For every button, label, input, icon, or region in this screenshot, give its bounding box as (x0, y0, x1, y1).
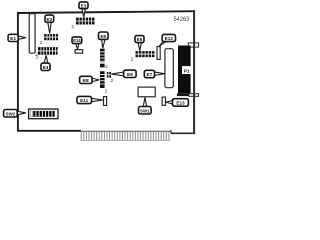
svg-text:E7: E7 (146, 72, 152, 78)
callout label E6 (135, 36, 144, 43)
callout label SW2 (4, 110, 18, 118)
header E8 (vertical 2-col) (100, 71, 105, 88)
callout tail E14 (76, 43, 79, 49)
jumper E11 component (104, 97, 107, 106)
connector P1 flange (177, 93, 189, 96)
edge connector end step (170, 130, 172, 134)
board bottom border right segment (171, 132, 195, 134)
svg-text:E6: E6 (137, 37, 143, 42)
callout tail E12 (159, 41, 166, 46)
callout label E9 (124, 70, 137, 77)
switch SW1 body (138, 87, 155, 97)
header E9 (2x2) (107, 72, 111, 78)
connector strip E1 (29, 14, 35, 54)
callout label E12 (162, 34, 175, 41)
DIP switch SW2 toggles (33, 111, 55, 117)
callout label E13 (173, 99, 189, 107)
board top border (17, 11, 195, 13)
callout tail E3 (82, 8, 85, 17)
callout tail E7 (154, 72, 164, 76)
callout tail SW1 (143, 97, 146, 106)
jumper E13 component (162, 97, 165, 105)
callout tail E4 (44, 55, 48, 63)
callout label E8 (80, 76, 92, 83)
callout tail SW2 (17, 111, 26, 115)
callout label E2 (45, 15, 54, 22)
callout label E11 (77, 96, 92, 103)
svg-text:E3: E3 (81, 3, 87, 8)
callout tail E2 (48, 22, 52, 33)
callout tail E5 (102, 39, 105, 48)
edge connector top rail (81, 130, 171, 132)
svg-text:E11: E11 (80, 98, 88, 103)
callout tail E9 (111, 72, 123, 76)
svg-text:E9: E9 (127, 72, 133, 78)
header E5 (vertical 2-col) (100, 49, 105, 68)
jumper E14 (75, 50, 83, 54)
svg-text:E13: E13 (176, 101, 185, 106)
callout label E4 (41, 63, 50, 70)
callout label E5 (99, 32, 109, 39)
jumper E12 component (157, 47, 160, 60)
callout tail E11 (91, 98, 103, 101)
svg-text:E1: E1 (10, 36, 16, 42)
callout label E7 (144, 70, 154, 77)
callout tail E8 (92, 78, 99, 82)
callout label E14 (72, 37, 82, 44)
svg-text:E2: E2 (46, 17, 52, 23)
edge connector finger bottoms (81, 140, 170, 142)
svg-text:E12: E12 (165, 36, 174, 41)
callout label E1 (8, 34, 18, 41)
svg-text:54263: 54263 (174, 17, 190, 23)
header E3 (2x6) (76, 18, 94, 25)
callout label E3 (79, 2, 88, 9)
callout tail E6 (138, 42, 141, 50)
connector P1 body (178, 46, 191, 94)
header E2 (2x5) (44, 34, 58, 40)
DIP switch SW2 position 1 (white) (30, 111, 32, 117)
svg-text:E14: E14 (73, 38, 81, 43)
bracket tab upper (188, 43, 198, 47)
connector E7 (tall socket) (165, 49, 173, 88)
board left border (17, 12, 19, 131)
label P1 (182, 66, 192, 74)
callout tail E1 (18, 36, 26, 39)
svg-text:E8: E8 (83, 78, 89, 84)
DIP switch SW2 body (29, 109, 58, 119)
board bottom border left segment (17, 130, 81, 132)
svg-text:E4: E4 (43, 65, 49, 71)
callout tail E13 (166, 100, 173, 104)
header E4 (2x7) (38, 47, 58, 55)
svg-text:SW2: SW2 (6, 111, 16, 116)
svg-text:E5: E5 (100, 34, 106, 40)
header E6 (2x6) (136, 51, 155, 57)
svg-text:SW1: SW1 (140, 108, 150, 113)
edge connector fingers (81, 132, 169, 141)
callout label SW1 (139, 107, 152, 115)
bracket tab lower (189, 94, 199, 97)
bracket vertical rail (193, 11, 195, 135)
svg-text:P1: P1 (184, 68, 190, 74)
